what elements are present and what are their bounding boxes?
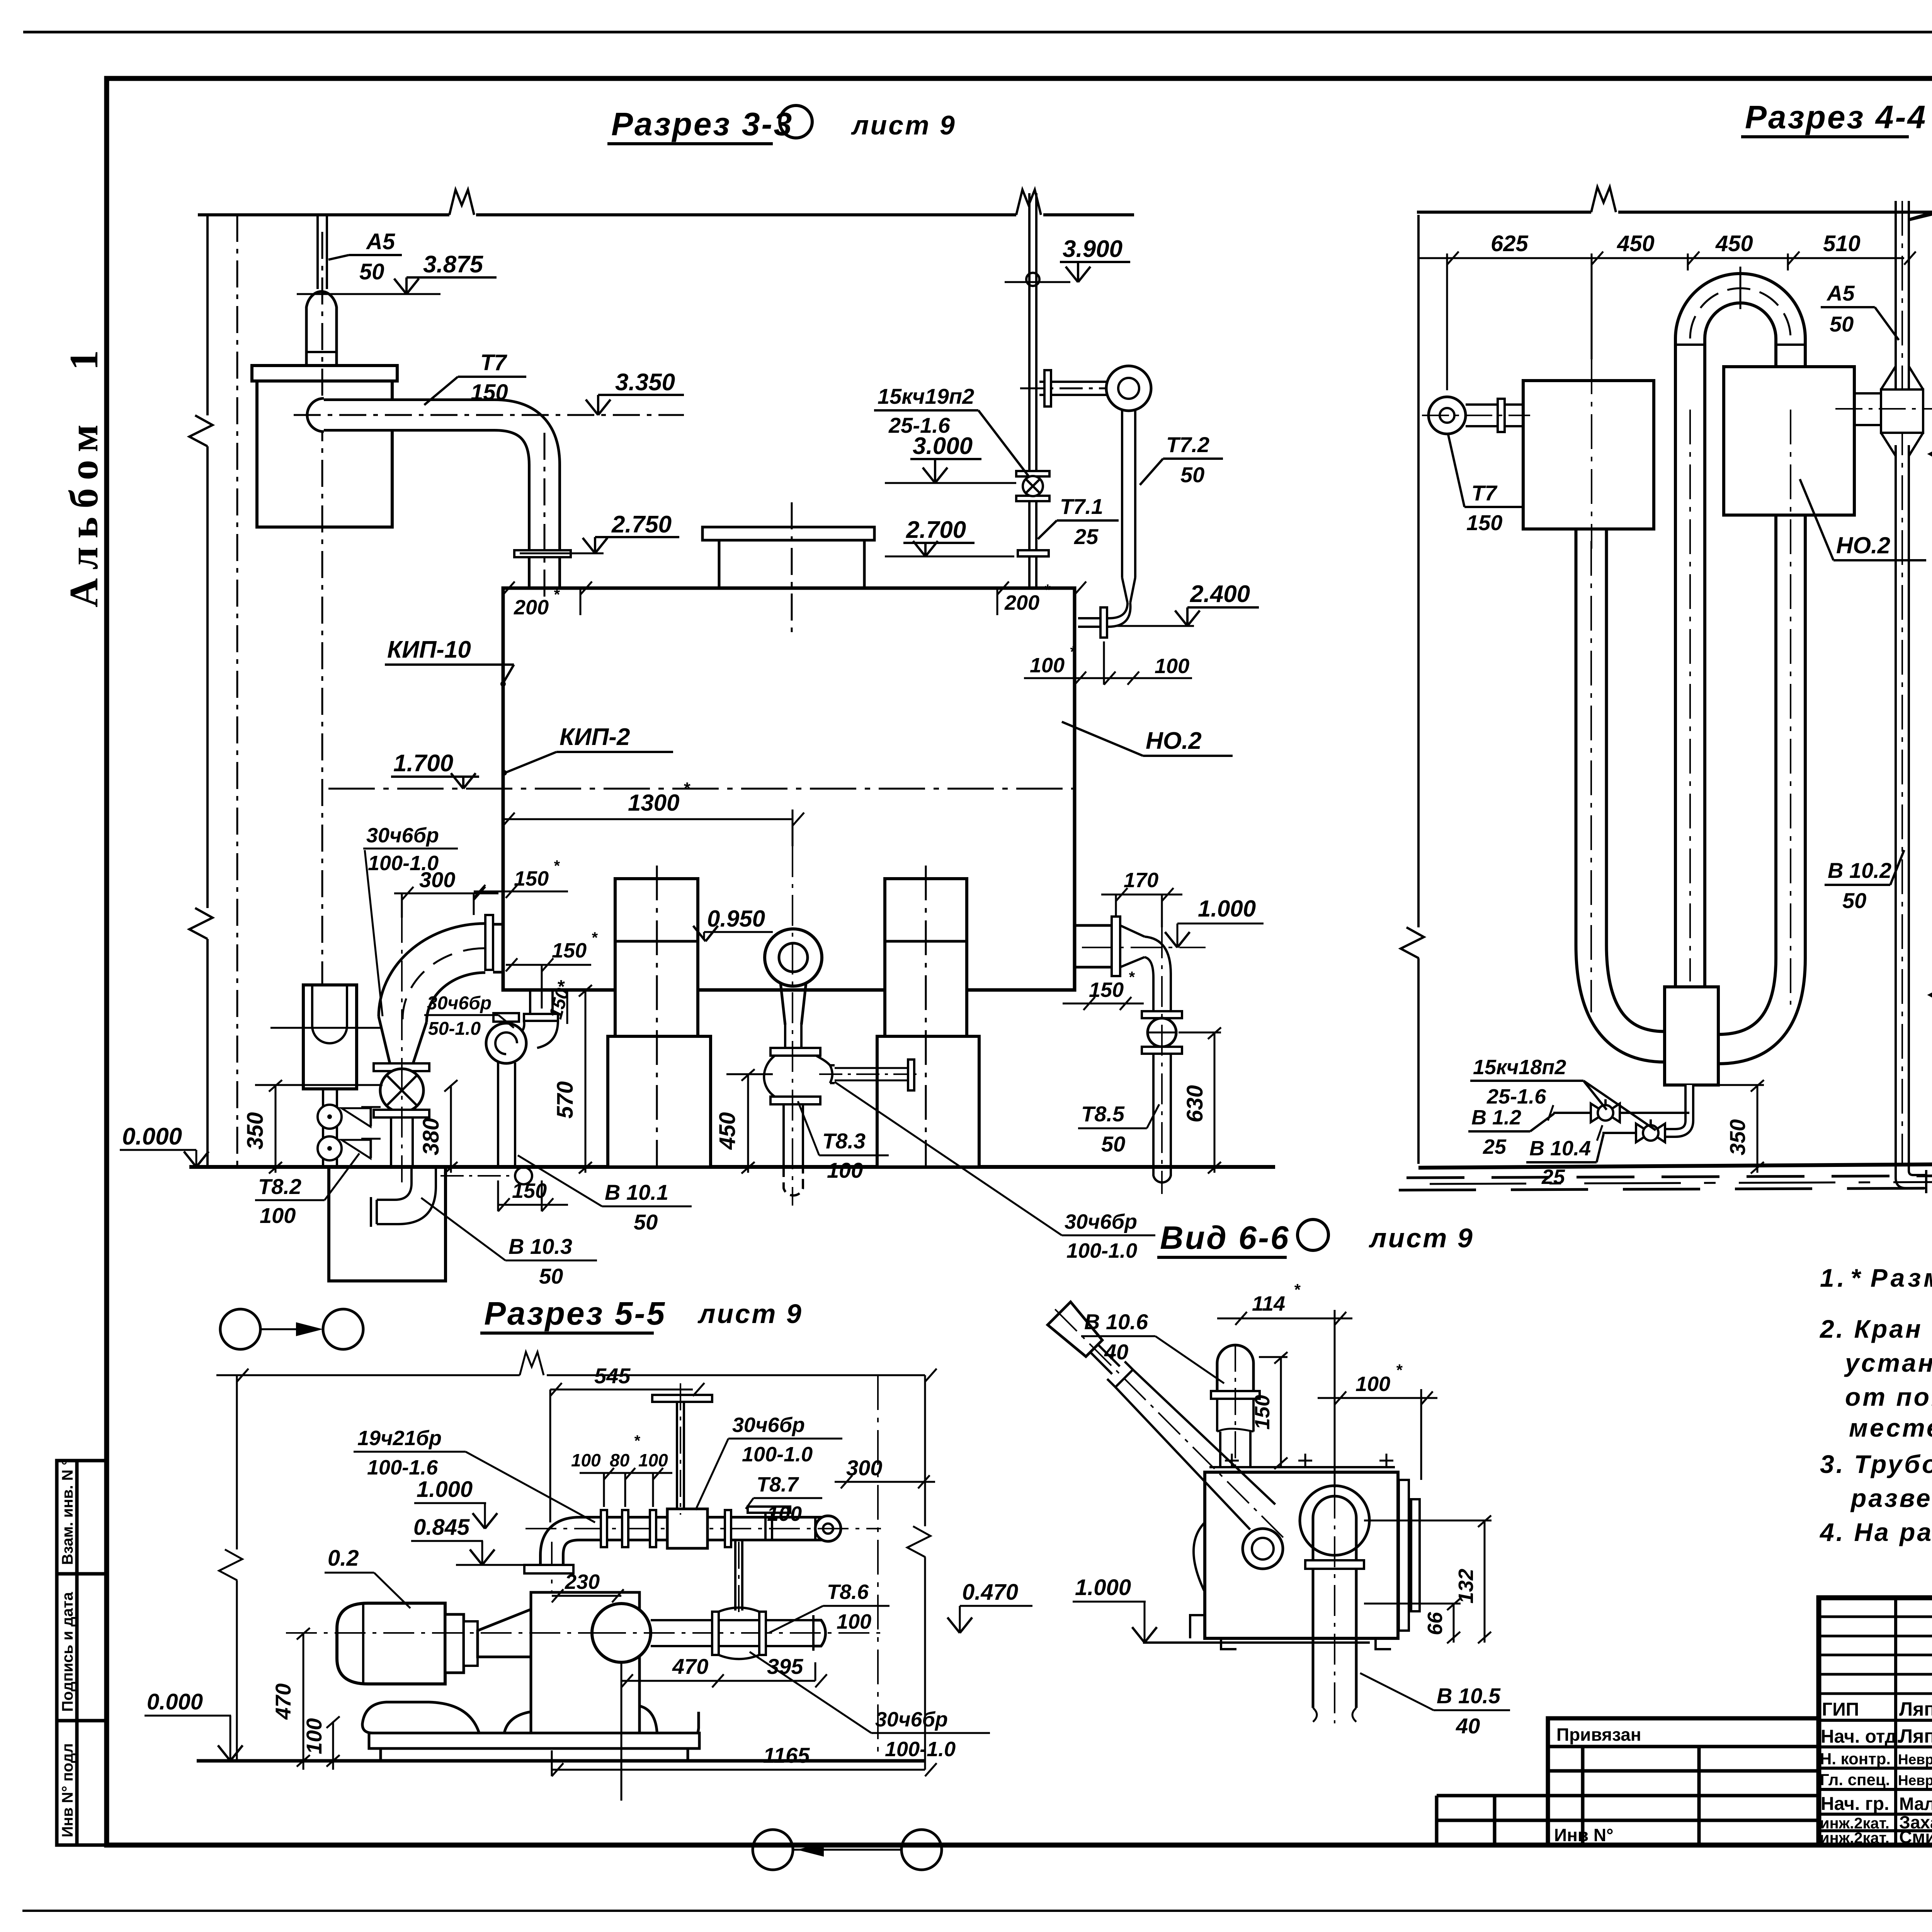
svg-text:2. Кран для отбора проб конден: 2. Кран для отбора проб конденсата марки… [1819, 1315, 1932, 1343]
dim 470 vertical [271, 1628, 595, 1770]
ceiling line [198, 213, 449, 216]
svg-text:Малыгина: Малыгина [1899, 1794, 1932, 1814]
tee on А5 riser [1835, 366, 1932, 456]
svg-text:15кч19п2: 15кч19п2 [878, 384, 974, 408]
svg-text:510: 510 [1823, 231, 1861, 256]
elevation 0.950 [693, 906, 773, 941]
dimension 100* 100 [1024, 641, 1192, 685]
valve Т8.7 with top handle [748, 1507, 790, 1513]
elevation datum vertical line [206, 215, 209, 1167]
svg-text:развести по месту согласно: развести по месту согласно схеме лист 6. [1850, 1484, 1932, 1512]
aux table Привязан [1437, 1718, 1819, 1845]
dim 230 [552, 1570, 624, 1602]
return pipe 30ч6бр-100 big elbow [374, 912, 504, 1182]
pump top-view body [1205, 1472, 1398, 1638]
label Т7.2/50 [1140, 432, 1223, 487]
label Т8.6/100 [769, 1580, 889, 1633]
label 30ч6бр/100-1.0 bottom [750, 1652, 990, 1761]
svg-text:100: 100 [571, 1450, 601, 1470]
valve flanges and body [374, 1063, 429, 1071]
ground hatch [1399, 1174, 1932, 1190]
svg-text:*: * [683, 779, 690, 798]
pipe T7 from vessel with elbow down [324, 415, 544, 588]
svg-text:Нач. гр.: Нач. гр. [1821, 1794, 1889, 1814]
label Т8.7/100 [746, 1473, 822, 1526]
dimension 200* right [997, 582, 1086, 615]
motor О.2 [337, 1603, 445, 1684]
dims 100 80 100 [571, 1432, 672, 1507]
svg-text:2.700: 2.700 [906, 517, 966, 543]
label НО.2 [1062, 722, 1233, 756]
right flange plates [1399, 1480, 1409, 1631]
U-pipe left assembly [1690, 288, 1791, 1049]
svg-text:100-1.0: 100-1.0 [742, 1443, 813, 1466]
title block texts [1820, 1617, 1932, 1847]
below-floor pit with В10.3 elbow [329, 1167, 532, 1281]
dim 114* [1217, 1281, 1352, 1488]
svg-text:66: 66 [1423, 1612, 1447, 1635]
label КИП-10 [385, 636, 514, 687]
elevation 0.000 left [120, 1123, 209, 1167]
svg-text:Привязан: Привязан [1556, 1725, 1641, 1745]
svg-text:Вид 6-6: Вид 6-6 [1160, 1219, 1290, 1256]
bolts on top [1225, 1454, 1393, 1468]
svg-text:80: 80 [610, 1450, 630, 1470]
dimension 200* left [503, 582, 592, 619]
svg-text:25: 25 [1541, 1165, 1565, 1189]
label 19ч21бр/100-1.6 [354, 1427, 595, 1522]
candle В10.6 [1211, 1345, 1260, 1472]
dim 132 [1364, 1515, 1492, 1643]
dimension 150* rotated small [545, 978, 575, 1024]
inlet flange on pump top [524, 1565, 573, 1573]
axis circles with arrow bottom [753, 1830, 942, 1870]
label 30ч6бр/100-1.0 lower right [835, 1082, 1155, 1262]
svg-text:50: 50 [1101, 1132, 1125, 1156]
dim 1165 [552, 1743, 937, 1776]
signature table verticals [1894, 1598, 1897, 1845]
floor line 0.000 [189, 1165, 1275, 1169]
svg-text:30ч6бр: 30ч6бр [1065, 1210, 1137, 1233]
pipe Т8.5 from tank right wall [1075, 917, 1206, 1194]
svg-text:350: 350 [1725, 1119, 1750, 1155]
flanges on upper pipe [601, 1510, 607, 1547]
elevation 1.000 [414, 1477, 497, 1529]
svg-text:200: 200 [1004, 591, 1039, 614]
svg-text:В 10.5: В 10.5 [1437, 1684, 1501, 1708]
dim 545 [550, 1364, 704, 1522]
label НО.2 left assembly [1800, 479, 1926, 560]
svg-text:40: 40 [1104, 1340, 1128, 1364]
label 15кч19п2/25-1.6 [874, 384, 1029, 477]
ceiling break [1591, 187, 1616, 212]
tee with upper handle stem [667, 1509, 707, 1548]
volute circle [592, 1604, 651, 1662]
svg-text:25: 25 [1483, 1135, 1507, 1158]
svg-text:50: 50 [1180, 463, 1204, 487]
svg-text:месте.: месте. [1849, 1413, 1932, 1442]
dimension 300 [394, 867, 498, 918]
outlet end cap [813, 1620, 825, 1646]
support column 2 [877, 866, 979, 1167]
label В10.6/40 [1081, 1310, 1224, 1383]
svg-text:2.750: 2.750 [611, 511, 672, 538]
svg-text:570: 570 [553, 1081, 578, 1119]
end cap [815, 1516, 841, 1541]
svg-text:150: 150 [471, 380, 508, 405]
labels / dimensions of left drawing [297, 229, 1259, 846]
ceiling break symbols [449, 190, 474, 215]
elevation 3.900 [1005, 236, 1130, 282]
label В1.2/25 left assembly [1468, 1106, 1554, 1158]
svg-text:от потребителей Т8.1 в удо: от потребителей Т8.1 в удобном для обслу… [1845, 1383, 1932, 1411]
label Т8.5/50 [1078, 1102, 1159, 1156]
pump О.2 with valve Т8.3 [764, 846, 920, 1206]
svg-text:Т8.7: Т8.7 [757, 1473, 799, 1496]
vessel Т8.2 under A5 column [270, 985, 383, 1089]
svg-text:230: 230 [565, 1570, 600, 1594]
svg-text:100-1.0: 100-1.0 [1066, 1239, 1137, 1262]
svg-text:В 10.3: В 10.3 [509, 1234, 572, 1259]
right vertical lines [877, 1375, 879, 1761]
label 15кч18п2/25-1.6 left assembly [1470, 1056, 1656, 1130]
svg-text:630: 630 [1182, 1085, 1207, 1122]
flange after tee [725, 1510, 731, 1547]
svg-text:Невретдинова: Невретдинова [1898, 1752, 1932, 1767]
left vertical dimension line [219, 1375, 242, 1761]
left margin stamp column [57, 1461, 107, 1845]
svg-text:Гл. спец.: Гл. спец. [1820, 1770, 1890, 1789]
elevation 3.875 [297, 251, 497, 294]
svg-text:50-1.0: 50-1.0 [428, 1019, 481, 1039]
label Т7/150 [424, 350, 526, 405]
svg-text:1.700: 1.700 [393, 750, 453, 777]
svg-text:3.875: 3.875 [423, 251, 484, 278]
dimension 570 [553, 985, 592, 1173]
svg-text:Т7: Т7 [480, 350, 507, 375]
svg-text:Ляпусов: Ляпусов [1899, 1725, 1932, 1747]
upper pipe 19ч21бр with elbow [552, 1529, 827, 1573]
elevation 2.750 [520, 511, 679, 553]
svg-text:В 10.1: В 10.1 [605, 1180, 668, 1204]
svg-text:Т8.2: Т8.2 [258, 1174, 301, 1199]
svg-text:50: 50 [1842, 888, 1866, 913]
svg-text:Подпись и дата: Подпись и дата [59, 1592, 76, 1712]
svg-text:Н. контр.: Н. контр. [1820, 1750, 1891, 1768]
top dimension line 625/450/450/510 [1418, 252, 1916, 390]
dim 150 [1251, 1352, 1287, 1469]
A5 expansion dome [306, 292, 337, 366]
svg-text:НО.2: НО.2 [1146, 728, 1202, 754]
drain cocks [318, 1105, 342, 1129]
elevation 1.000 right [1165, 896, 1264, 947]
air vessel on A5 [252, 366, 397, 381]
svg-text:В 10.6: В 10.6 [1084, 1310, 1148, 1334]
svg-text:Альбом 1: Альбом 1 [61, 342, 106, 607]
svg-text:100-1.0: 100-1.0 [885, 1738, 956, 1761]
dimension 150* right [1063, 969, 1144, 1010]
label Т7/150 left assembly [1448, 435, 1522, 535]
arc top centerline tick [1740, 267, 1742, 309]
svg-text:100: 100 [767, 1502, 802, 1526]
svg-text:350: 350 [243, 1112, 268, 1150]
diagonal motor handle [1043, 1297, 1296, 1569]
svg-text:150: 150 [1251, 1395, 1274, 1430]
svg-text:100: 100 [1355, 1372, 1390, 1396]
dimension 170 [1101, 869, 1182, 927]
svg-text:25: 25 [1074, 524, 1099, 549]
labels Разрез 5-5 [145, 1364, 1032, 1801]
label В10.3/50 left [421, 1198, 597, 1288]
T7 flange [514, 550, 571, 557]
Т7 inlet circle [1466, 403, 1523, 406]
svg-text:Разрез 3-3: Разрез 3-3 [611, 106, 793, 142]
label 30ч6бр/100-1.0 top [696, 1413, 842, 1510]
svg-text:1.000: 1.000 [1075, 1575, 1131, 1600]
label В10.1/50 [518, 1155, 692, 1234]
svg-text:*: * [1128, 969, 1135, 986]
dimension 150 below floor [498, 1179, 568, 1211]
manhole on tank top [702, 527, 874, 540]
svg-text:100: 100 [1155, 655, 1189, 678]
svg-text:50: 50 [634, 1210, 658, 1234]
drain stem with valves В1.2/В10.4 [1548, 1085, 1689, 1142]
svg-text:*: * [1396, 1361, 1403, 1379]
label В10.2/50 [1825, 850, 1904, 913]
label В10.5/40 [1360, 1673, 1510, 1738]
pipe T7.2 horizontal from riser [1039, 381, 1106, 383]
drain pipe under Т8.2 [318, 1089, 381, 1167]
label А5/50 left assembly [1821, 281, 1899, 340]
stem down to Т8.6 [734, 1541, 736, 1611]
dim 100* [1318, 1361, 1437, 1480]
elevation 3.350 [586, 369, 684, 415]
svg-text:*: * [634, 1432, 641, 1449]
svg-text:Т7.1: Т7.1 [1060, 494, 1103, 519]
svg-text:30ч6бр: 30ч6бр [427, 993, 492, 1014]
svg-text:545: 545 [594, 1364, 631, 1388]
svg-text:Инв N°: Инв N° [1554, 1825, 1614, 1845]
svg-text:Т7.2: Т7.2 [1166, 432, 1209, 457]
svg-text:100: 100 [1030, 654, 1065, 677]
top rail [1209, 1466, 1395, 1468]
pipe В10.5 through pump [1300, 1486, 1369, 1723]
svg-text:300: 300 [419, 867, 455, 892]
svg-text:100: 100 [302, 1718, 326, 1754]
elevation 3.000 [885, 433, 1016, 483]
svg-text:470: 470 [672, 1654, 708, 1679]
dimension 450 [715, 1069, 773, 1173]
elevation 0.470 [947, 1580, 1032, 1633]
svg-text:1.000: 1.000 [1198, 896, 1256, 922]
label Т8.2/100 [255, 1153, 359, 1228]
floor right drawing [1418, 1160, 1932, 1168]
svg-text:Разрез 4-4: Разрез 4-4 [1745, 99, 1927, 135]
dimension 150* second [506, 929, 598, 1009]
dimension 350 [1716, 1080, 1764, 1173]
support column 1 [608, 866, 711, 1167]
valve В1.2 bow-tie [1591, 1099, 1620, 1122]
valve В10.4 bow-tie [1636, 1119, 1665, 1142]
flange on T7.1 at 2.700 [1018, 550, 1049, 556]
label 30ч6бр/100-1.0 upper [363, 824, 458, 1016]
left bulge [1194, 1522, 1205, 1592]
svg-text:19ч21бр: 19ч21бр [357, 1427, 442, 1450]
elevation 1.700 [391, 750, 479, 789]
dimensions and labels for lower part [120, 824, 1264, 1288]
svg-text:40: 40 [1456, 1714, 1480, 1738]
svg-text:0.2: 0.2 [328, 1546, 359, 1571]
svg-text:Нач. отд.: Нач. отд. [1821, 1726, 1902, 1747]
svg-text:В 1.2: В 1.2 [1471, 1106, 1521, 1129]
tank horizontal centerline 1.700 [328, 788, 1075, 790]
svg-text:3.350: 3.350 [615, 369, 675, 396]
svg-text:2.400: 2.400 [1190, 581, 1250, 607]
svg-text:Смирнова: Смирнова [1899, 1827, 1932, 1847]
label Т7.1/25 [1038, 494, 1119, 549]
svg-text:450: 450 [1617, 231, 1655, 256]
svg-text:100: 100 [837, 1610, 871, 1633]
title Разрез 4-4 [1741, 99, 1932, 137]
svg-text:0.000: 0.000 [122, 1123, 182, 1150]
outer border top [23, 31, 1932, 34]
svg-text:Разрез 5-5: Разрез 5-5 [484, 1295, 666, 1332]
svg-text:150: 150 [1466, 510, 1502, 535]
svg-text:1165: 1165 [763, 1743, 810, 1767]
svg-text:100: 100 [827, 1158, 863, 1182]
svg-text:*: * [1044, 582, 1051, 599]
svg-text:50: 50 [359, 259, 384, 284]
label Трубопроводы А5 вывести выше конька крыши [1908, 150, 1932, 220]
svg-text:3. Трубопроводы охлаждения по: 3. Трубопроводы охлаждения подшипников н… [1820, 1450, 1932, 1478]
svg-text:100: 100 [260, 1203, 296, 1228]
svg-text:*: * [1070, 643, 1077, 660]
svg-text:В 10.4: В 10.4 [1529, 1137, 1591, 1160]
ceiling line [1417, 211, 1591, 214]
dimension 630 [1179, 1027, 1221, 1173]
svg-text:114: 114 [1252, 1292, 1285, 1315]
dimension 150* top [474, 857, 568, 898]
svg-text:Т8.3: Т8.3 [822, 1129, 866, 1153]
elevation 2.700 [885, 517, 1014, 556]
svg-text:1300: 1300 [628, 790, 679, 816]
svg-text:Т8.5: Т8.5 [1081, 1102, 1125, 1126]
svg-text:В 10.2: В 10.2 [1828, 858, 1891, 883]
svg-text:50: 50 [539, 1264, 563, 1288]
svg-text:*: * [1294, 1281, 1301, 1299]
svg-text:470: 470 [271, 1684, 295, 1720]
feet bottom [1190, 1615, 1391, 1649]
left extension rows [1437, 1794, 1548, 1798]
left datum line [1417, 215, 1420, 1164]
dim 100 vertical [302, 1716, 340, 1770]
svg-text:Т8.6: Т8.6 [827, 1580, 869, 1604]
elevation 0.845 [411, 1515, 524, 1565]
svg-text:*: * [553, 586, 560, 603]
svg-text:3.000: 3.000 [913, 433, 973, 459]
label 30ч6бр/50-1.0 small pump [424, 993, 514, 1039]
В10.2 below floor elbow left [1896, 1164, 1926, 1193]
svg-text:15кч18п2: 15кч18п2 [1473, 1056, 1566, 1079]
dim 470 horizontal [621, 1654, 724, 1801]
small pump 30ч6бр-50 at tank corner [486, 990, 558, 1167]
title Разрез 5-5 [480, 1295, 803, 1333]
labels of right drawing [1448, 231, 1932, 1250]
svg-text:А5: А5 [366, 229, 395, 254]
dimension 380 [418, 1080, 457, 1173]
svg-text:625: 625 [1491, 231, 1529, 256]
svg-text:132: 132 [1454, 1569, 1478, 1604]
svg-text:0.845: 0.845 [413, 1515, 470, 1540]
dim 300 [835, 1456, 935, 1488]
roof leader diagonal [1908, 177, 1932, 219]
axis circles with arrow top [220, 1309, 363, 1349]
T7 pipe centerline [294, 414, 684, 416]
riser T7.1 [1028, 193, 1031, 588]
svg-text:450: 450 [715, 1112, 740, 1150]
dim 395 [712, 1654, 827, 1687]
base ref line [1143, 1641, 1370, 1644]
top boundary dimension line [216, 1352, 937, 1382]
svg-text:0.000: 0.000 [147, 1689, 203, 1714]
svg-text:*: * [553, 857, 560, 874]
leg centerlines [1590, 541, 1592, 1012]
svg-text:30ч6бр: 30ч6бр [875, 1708, 948, 1731]
pipe A5 risers [316, 215, 319, 289]
svg-text:4. На разрезе 3-3 лестница: 4. На разрезе 3-3 лестница условно не по… [1819, 1518, 1932, 1546]
svg-text:лист 9: лист 9 [851, 110, 956, 140]
label КИП-2 [502, 724, 673, 776]
axis dash-dot line [236, 215, 238, 1167]
label В10.4/25 left assembly [1526, 1134, 1604, 1189]
outer border bottom [22, 1910, 1932, 1912]
box НО.2 left assembly [1724, 367, 1854, 515]
cone to valve [379, 1017, 427, 1063]
svg-text:Т7: Т7 [1471, 481, 1498, 505]
valve 15кч19п2 on T7.1 [1016, 471, 1049, 501]
svg-text:КИП-10: КИП-10 [387, 636, 471, 663]
elevation 1.000 [1073, 1575, 1157, 1643]
pipe centerline [526, 1528, 881, 1529]
svg-text:3.900: 3.900 [1063, 236, 1122, 262]
svg-text:170: 170 [1124, 869, 1158, 892]
lower part of Разрез 3-3 [189, 846, 1275, 1281]
svg-text:Ляпусов: Ляпусов [1899, 1698, 1932, 1720]
svg-text:150: 150 [514, 867, 549, 890]
svg-text:25-1.6: 25-1.6 [1486, 1085, 1546, 1108]
elevation 0.000 [145, 1689, 243, 1761]
svg-text:100-1.6: 100-1.6 [367, 1456, 438, 1479]
dimension 1300* [503, 779, 804, 846]
svg-text:Инв N° подл: Инв N° подл [59, 1743, 76, 1837]
А5 riser left assembly [1895, 201, 1897, 388]
svg-text:ГИП: ГИП [1822, 1699, 1859, 1720]
svg-text:А5: А5 [1826, 281, 1855, 305]
svg-text:30ч6бр: 30ч6бр [732, 1413, 805, 1437]
title Разрез 3-3 [607, 105, 956, 144]
svg-text:150: 150 [552, 939, 587, 962]
dimension 350 [243, 1080, 383, 1173]
tank pipe to pump block [1591, 529, 1665, 1047]
svg-text:лист 9: лист 9 [1369, 1223, 1474, 1253]
tank НО.2 [503, 588, 1075, 990]
svg-text:100: 100 [638, 1450, 668, 1470]
signature table rows [1819, 1616, 1932, 1618]
svg-text:380: 380 [418, 1118, 444, 1155]
svg-text:1.000: 1.000 [417, 1477, 473, 1502]
TITLE BLOCK [1819, 1598, 1932, 1845]
vessel axis dash-dot [321, 232, 323, 983]
